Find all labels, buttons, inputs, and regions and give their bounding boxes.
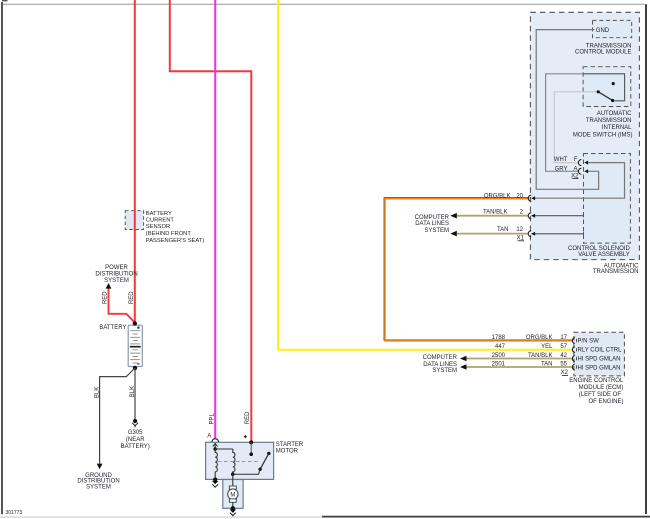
- svg-text:RED: RED: [129, 291, 135, 304]
- svg-text:TRANSMISSION: TRANSMISSION: [586, 118, 632, 124]
- svg-text:PPL: PPL: [210, 412, 216, 424]
- svg-text:TRANSMISSION: TRANSMISSION: [586, 43, 632, 49]
- svg-text:CONTROL MODULE: CONTROL MODULE: [575, 50, 631, 56]
- svg-text:BATTERY): BATTERY): [121, 444, 150, 450]
- svg-text:42: 42: [560, 353, 567, 359]
- svg-text:ORG/BLK: ORG/BLK: [526, 335, 553, 341]
- svg-text:INTERNAL: INTERNAL: [602, 125, 632, 131]
- svg-text:YEL: YEL: [541, 344, 553, 350]
- svg-text:TAN: TAN: [541, 361, 553, 367]
- svg-text:MOTOR: MOTOR: [276, 448, 299, 454]
- svg-text:2500: 2500: [492, 353, 506, 359]
- svg-text:TRANSMISSION: TRANSMISSION: [593, 269, 639, 275]
- svg-text:57: 57: [560, 344, 567, 350]
- svg-text:DATA LINES: DATA LINES: [415, 221, 449, 227]
- svg-text:MODE SWITCH (IMS): MODE SWITCH (IMS): [573, 133, 633, 139]
- svg-text:POWER: POWER: [105, 265, 128, 271]
- svg-text:G305: G305: [128, 430, 143, 436]
- svg-text:STARTER: STARTER: [276, 442, 304, 448]
- svg-text:A: A: [573, 167, 577, 173]
- svg-text:ORG/BLK: ORG/BLK: [484, 193, 511, 199]
- svg-text:OF ENGINE): OF ENGINE): [588, 399, 623, 405]
- svg-text:ENGINE CONTROL: ENGINE CONTROL: [569, 378, 624, 384]
- svg-text:GND: GND: [596, 28, 610, 34]
- svg-text:SENSOR: SENSOR: [146, 224, 170, 230]
- svg-text:TAN: TAN: [497, 227, 509, 233]
- svg-text:TAN/BLK: TAN/BLK: [483, 210, 508, 216]
- svg-text:TAN/BLK: TAN/BLK: [528, 353, 553, 359]
- svg-text:P/N SW: P/N SW: [578, 339, 600, 345]
- svg-text:12: 12: [516, 227, 523, 233]
- svg-text:301773: 301773: [6, 510, 23, 516]
- svg-text:F: F: [574, 157, 578, 163]
- svg-text:2501: 2501: [492, 361, 506, 367]
- svg-text:SYSTEM: SYSTEM: [432, 368, 457, 374]
- svg-text:(NEAR: (NEAR: [126, 437, 145, 443]
- svg-text:55: 55: [560, 361, 567, 367]
- svg-text:M: M: [230, 492, 235, 498]
- svg-text:RED: RED: [245, 411, 251, 424]
- svg-text:BATTERY: BATTERY: [146, 211, 172, 217]
- svg-text:BLK: BLK: [130, 386, 136, 397]
- svg-text:1788: 1788: [492, 335, 506, 341]
- svg-text:AUTOMATIC: AUTOMATIC: [597, 111, 632, 117]
- svg-text:COMPUTER: COMPUTER: [423, 355, 458, 361]
- svg-text:17: 17: [560, 335, 567, 341]
- svg-text:HI SPD GMLAN: HI SPD GMLAN: [578, 366, 621, 372]
- svg-text:GRY: GRY: [555, 167, 568, 173]
- svg-text:MODULE (ECM): MODULE (ECM): [579, 385, 624, 391]
- svg-text:(LEFT SIDE OF: (LEFT SIDE OF: [579, 392, 622, 398]
- svg-text:20: 20: [516, 193, 523, 199]
- svg-text:HI SPD GMLAN: HI SPD GMLAN: [578, 356, 621, 362]
- svg-text:COMPUTER: COMPUTER: [415, 215, 450, 221]
- svg-text:A: A: [207, 434, 211, 440]
- svg-text:PASSENGER'S SEAT): PASSENGER'S SEAT): [146, 238, 204, 244]
- svg-text:447: 447: [495, 344, 506, 350]
- svg-text:CURRENT: CURRENT: [146, 218, 175, 224]
- svg-text:VALVE ASSEMBLY: VALVE ASSEMBLY: [578, 252, 630, 258]
- svg-text:BLK: BLK: [94, 387, 100, 398]
- svg-text:WHT: WHT: [554, 157, 568, 163]
- svg-text:SYSTEM: SYSTEM: [104, 278, 129, 284]
- svg-text:SYSTEM: SYSTEM: [424, 228, 449, 234]
- svg-text:RED: RED: [102, 291, 108, 304]
- svg-text:(BEHIND FRONT: (BEHIND FRONT: [146, 231, 192, 237]
- svg-text:RLY COIL CTRL: RLY COIL CTRL: [578, 348, 623, 354]
- svg-text:BATTERY: BATTERY: [99, 325, 126, 331]
- svg-text:DISTRIBUTION: DISTRIBUTION: [95, 271, 137, 277]
- svg-text:SYSTEM: SYSTEM: [86, 484, 111, 490]
